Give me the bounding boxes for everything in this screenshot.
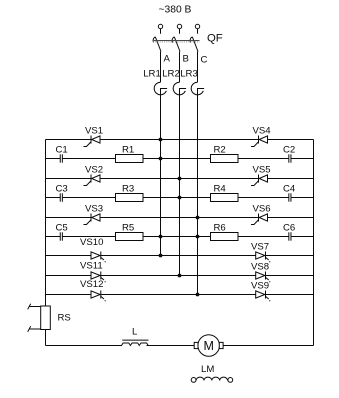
svg-text:VS3: VS3 (85, 204, 103, 215)
svg-text:C6: C6 (283, 222, 295, 233)
row 4 wire right (291, 197, 313, 199)
breaker QF pole C blade (190, 37, 198, 52)
row 3 wire (46, 178, 314, 180)
svg-text:VS4: VS4 (253, 126, 272, 137)
row 1 wire (46, 139, 314, 141)
breaker QF pole B blade (172, 37, 180, 52)
capacitor C6 (283, 222, 295, 240)
wire phase B (179, 95, 181, 276)
reactor LR3 (191, 52, 204, 96)
svg-text:LR2: LR2 (162, 69, 180, 80)
junction A row7 (159, 254, 163, 258)
bottom wire right (223, 345, 313, 347)
row 7 wire (46, 255, 314, 257)
wire phase C (197, 95, 199, 295)
thyristor VS9 (251, 281, 270, 302)
terminal B (177, 24, 181, 28)
svg-text:R1: R1 (122, 144, 134, 155)
thyristor VS8 (251, 262, 270, 283)
resistor R1 (116, 144, 144, 162)
reactor LR2 (173, 52, 186, 96)
svg-text:A: A (164, 54, 171, 65)
svg-text:C1: C1 (56, 144, 68, 155)
row 4 wire left (46, 197, 61, 199)
svg-text:VS5: VS5 (253, 165, 271, 176)
svg-text:LR1: LR1 (143, 69, 161, 80)
svg-text:L: L (132, 327, 138, 338)
junction A row2 (159, 157, 163, 161)
svg-text:VS9: VS9 (251, 281, 269, 292)
svg-text:R3: R3 (122, 183, 134, 194)
svg-text:QF: QF (207, 33, 223, 45)
junction B row4 (178, 196, 182, 200)
row 2 wire right (291, 158, 313, 160)
thyristor VS1 (84, 126, 104, 147)
resistor R6 (211, 222, 239, 240)
inductor L (122, 327, 149, 346)
svg-text:VS6: VS6 (253, 204, 271, 215)
wire stub B (179, 29, 181, 34)
svg-text:B: B (183, 54, 189, 65)
motor M (194, 335, 223, 357)
breaker QF pole A blade (153, 37, 161, 52)
thyristor VS6 (251, 204, 271, 225)
terminal C (195, 24, 199, 28)
thyristor VS11 (80, 261, 106, 283)
svg-text:VS8: VS8 (251, 262, 269, 273)
capacitor C2 (283, 144, 295, 162)
svg-text:VS7: VS7 (251, 242, 269, 253)
terminal A (158, 24, 162, 28)
row 6 wire mid (63, 236, 289, 238)
capacitor C5 (56, 222, 68, 240)
junction B row8 (178, 274, 182, 278)
junction B row3 (178, 177, 182, 181)
svg-text:C3: C3 (56, 183, 68, 194)
junction A row6 (159, 235, 163, 239)
thyristor VS2 (84, 165, 104, 186)
svg-text:C2: C2 (283, 144, 295, 155)
wire stub A (160, 29, 162, 34)
junction A row1 (159, 138, 163, 142)
junction C row6 (196, 235, 200, 239)
svg-text:VS12: VS12 (80, 279, 103, 290)
breaker QF linkage bar (153, 40, 200, 42)
svg-text:LR3: LR3 (180, 69, 198, 80)
svg-text:VS10: VS10 (80, 237, 103, 248)
svg-text:VS11: VS11 (80, 261, 103, 272)
resistor R2 (211, 144, 239, 162)
thyristor VS3 (84, 204, 104, 225)
resistor R4 (211, 183, 239, 201)
wire stub C (197, 29, 199, 34)
row 5 wire (46, 217, 314, 219)
svg-text:C4: C4 (283, 183, 296, 194)
thyristor VS4 (251, 126, 271, 147)
shunt RS (28, 304, 71, 332)
excitation winding LM (191, 377, 233, 382)
capacitor C4 (283, 183, 296, 201)
row 4 wire mid (63, 197, 289, 199)
row 6 wire left (46, 236, 61, 238)
svg-text:VS1: VS1 (85, 126, 103, 137)
svg-text:~380 В: ~380 В (159, 5, 192, 16)
svg-text:C5: C5 (56, 222, 68, 233)
junction C row9 (196, 293, 200, 297)
bottom wire left (46, 345, 123, 347)
right bus wire (313, 140, 315, 346)
wire phase A (160, 95, 162, 256)
row 2 wire mid (63, 158, 289, 160)
resistor R3 (116, 183, 144, 201)
svg-text:R5: R5 (122, 222, 134, 233)
left bus wire (45, 140, 47, 307)
row 9 wire (46, 294, 314, 296)
capacitor C3 (56, 183, 68, 201)
svg-text:R6: R6 (214, 222, 226, 233)
row 2 wire left (46, 158, 61, 160)
reactor LR1 (154, 52, 167, 96)
svg-text:M: M (204, 339, 214, 353)
row 6 wire right (291, 236, 313, 238)
thyristor VS5 (251, 165, 271, 186)
junction C row5 (196, 216, 200, 220)
svg-text:R4: R4 (214, 183, 227, 194)
thyristor VS10 (80, 237, 106, 262)
svg-text:LM: LM (201, 364, 214, 375)
resistor R5 (116, 222, 144, 240)
row 8 wire (46, 275, 314, 277)
wire bus to bottom (45, 330, 47, 346)
svg-text:RS: RS (58, 313, 71, 324)
svg-text:R2: R2 (214, 144, 226, 155)
capacitor C1 (56, 144, 68, 162)
svg-text:C: C (201, 55, 208, 66)
bottom wire middle (147, 345, 195, 347)
thyristor VS12 (80, 279, 106, 301)
svg-text:VS2: VS2 (85, 165, 103, 176)
thyristor VS7 (251, 242, 270, 263)
